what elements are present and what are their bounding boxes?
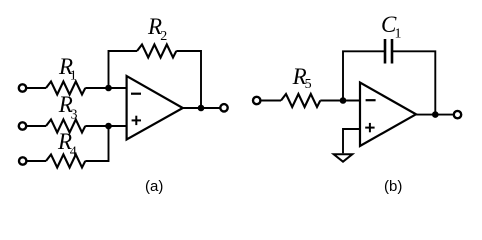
input terminal 2 (circuit a) bbox=[19, 122, 26, 129]
wire terminal3 to R4 bbox=[27, 160, 46, 162]
op-amp U1 (circuit a) bbox=[127, 76, 183, 140]
wire terminal2 to R3 bbox=[27, 125, 46, 127]
resistor R1 bbox=[46, 82, 85, 95]
svg-text:1: 1 bbox=[395, 27, 402, 42]
label C1 bbox=[381, 12, 402, 42]
capacitor C1 bbox=[385, 39, 392, 64]
svg-text:(b): (b) bbox=[384, 178, 402, 195]
svg-text:1: 1 bbox=[70, 69, 77, 84]
input terminal 1 (circuit a) bbox=[19, 84, 26, 91]
plus sign U1 bbox=[132, 116, 141, 125]
node dot inverting input (b) bbox=[340, 97, 347, 104]
node dot inverting input (a) bbox=[105, 85, 112, 92]
plus sign U2 bbox=[365, 123, 374, 132]
wire R5 to inverting input (b) bbox=[320, 100, 360, 102]
minus sign U2 bbox=[366, 99, 376, 101]
svg-text:2: 2 bbox=[160, 29, 167, 44]
caption (a) bbox=[145, 178, 163, 195]
wire R3 to non-inverting input bbox=[85, 125, 126, 127]
resistor R4 bbox=[46, 155, 85, 168]
resistor R3 bbox=[46, 120, 85, 133]
svg-text:4: 4 bbox=[70, 145, 77, 160]
output terminal (a) bbox=[220, 104, 227, 111]
caption (b) bbox=[384, 178, 402, 195]
label R2 bbox=[147, 14, 167, 44]
wire U2 output bbox=[416, 114, 453, 116]
resistor R2 bbox=[137, 45, 176, 58]
input terminal 3 (circuit a) bbox=[19, 157, 26, 164]
svg-text:3: 3 bbox=[71, 108, 78, 123]
wire feedback right vertical (b) bbox=[392, 51, 435, 114]
svg-text:5: 5 bbox=[305, 77, 312, 92]
label R4 bbox=[57, 129, 77, 160]
output terminal (b) bbox=[454, 111, 461, 118]
wire terminal to R5 bbox=[261, 100, 281, 102]
wire feedback left vertical (a) bbox=[109, 51, 138, 88]
label R3 bbox=[58, 92, 78, 123]
resistor R5 bbox=[281, 94, 320, 107]
op-amp U2 (circuit b) bbox=[360, 83, 416, 147]
wire R1 to inverting input bbox=[85, 87, 126, 89]
wire R4 up to non-inverting node bbox=[85, 126, 108, 161]
wire U1 output bbox=[183, 107, 220, 109]
ground bbox=[334, 154, 353, 161]
node dot non-inverting input (a) bbox=[105, 123, 112, 130]
node dot output (a) bbox=[198, 105, 205, 112]
node dot output (b) bbox=[432, 111, 439, 118]
wire non-inverting input to ground stem (b) bbox=[343, 129, 360, 153]
wire feedback right vertical (a) bbox=[176, 51, 201, 108]
label R1 bbox=[58, 54, 77, 84]
input terminal (circuit b) bbox=[253, 97, 260, 104]
label R5 bbox=[292, 64, 312, 92]
minus sign U1 bbox=[131, 93, 141, 95]
wire feedback left vertical (b) bbox=[343, 51, 385, 100]
svg-text:(a): (a) bbox=[145, 178, 163, 195]
wire terminal1 to R1 bbox=[27, 87, 46, 89]
